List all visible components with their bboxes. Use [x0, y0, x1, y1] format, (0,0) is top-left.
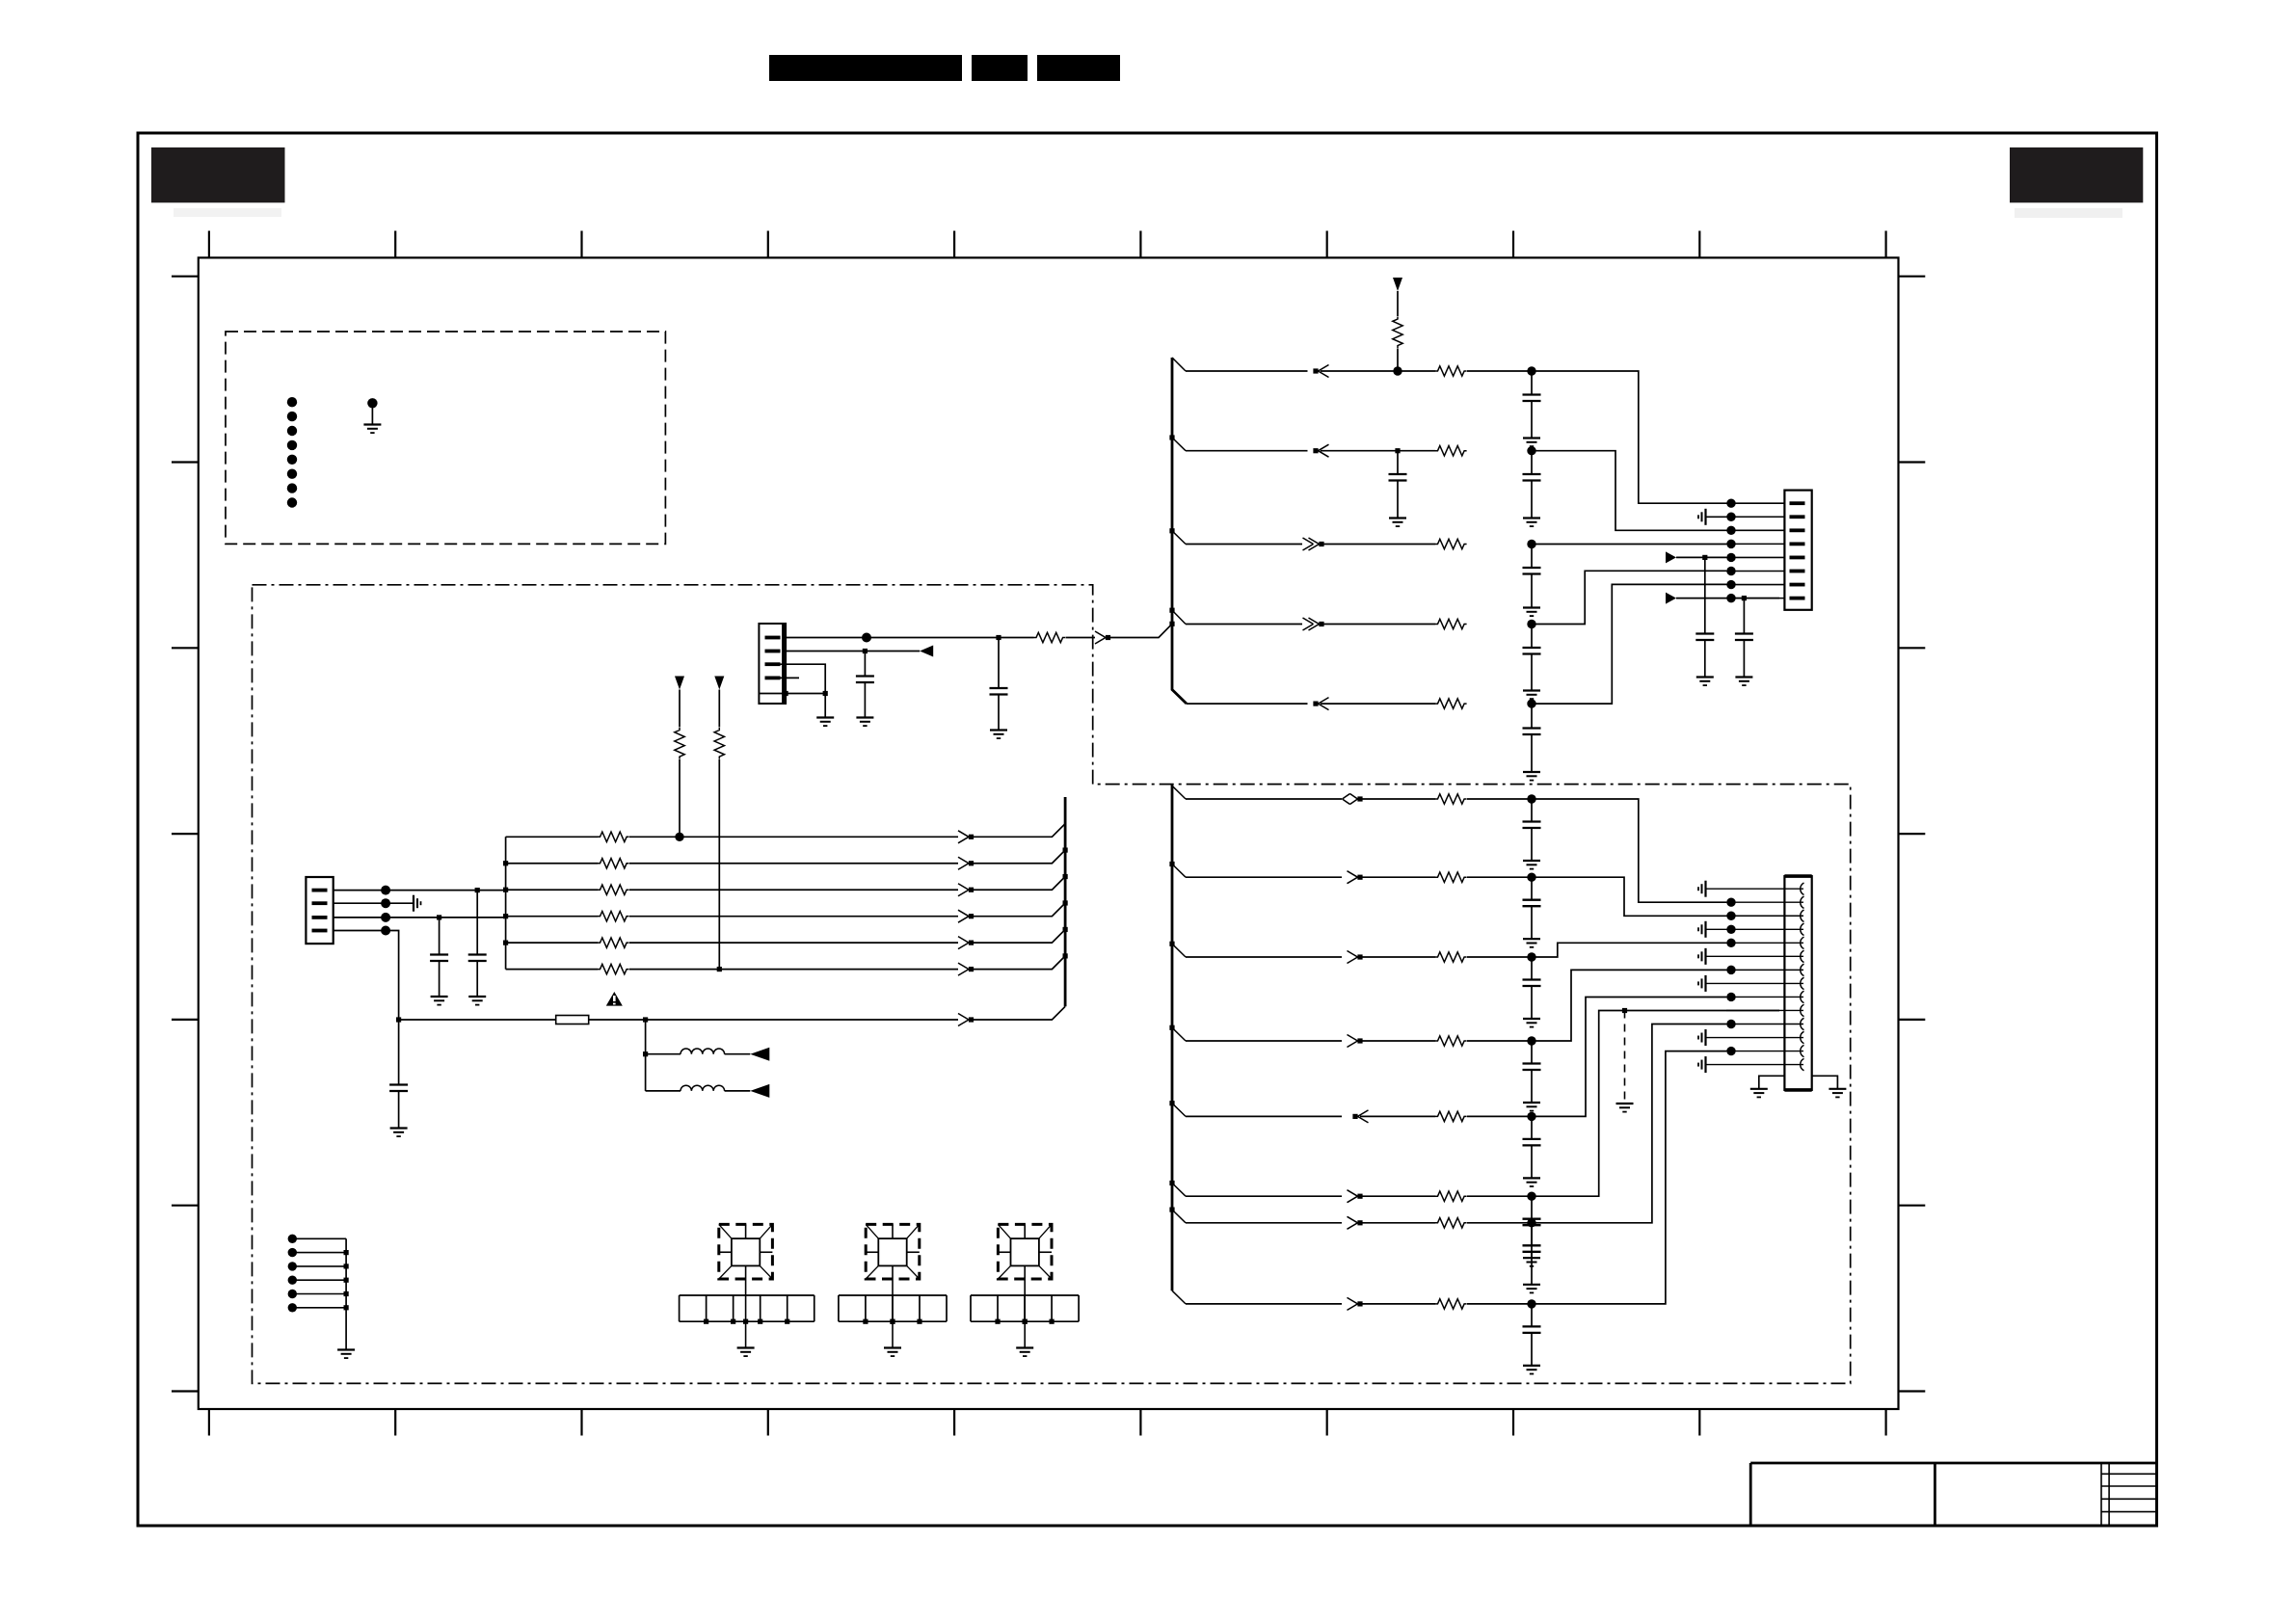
bus B2 node row3 — [1063, 874, 1068, 879]
C14 lead — [1531, 799, 1533, 822]
S1 ground node 4 — [785, 1319, 789, 1324]
wire row1 right segment — [1467, 371, 1726, 503]
row F2 wire left — [1186, 1222, 1342, 1224]
bank gather node row3 — [503, 888, 508, 892]
splice bar node 2 — [344, 1250, 349, 1255]
bank row4 wire — [506, 916, 598, 918]
node N24 junction — [643, 1017, 648, 1022]
wire C7 lead — [1704, 557, 1706, 633]
J4 contact 2 entry node — [1726, 898, 1735, 907]
splice bar node 5 — [344, 1291, 349, 1296]
row A wire after resistor — [1467, 798, 1532, 800]
resistor R5 — [1435, 619, 1467, 628]
ground of T3 — [1016, 1348, 1033, 1357]
node N22 junction — [717, 967, 722, 971]
row A wire left — [1186, 798, 1342, 800]
resistor R7 — [1034, 632, 1066, 642]
wire to J4 contact 11 — [1726, 1024, 1803, 1025]
node N7 junction — [1527, 699, 1535, 707]
T3 tap wire — [1024, 1265, 1026, 1321]
title block — [1750, 1463, 2156, 1526]
wire row3 left segment — [1186, 544, 1302, 545]
wire C11 lead — [476, 891, 478, 955]
bank row3 wire to bus — [972, 877, 1066, 891]
row C wire after resistor — [1467, 956, 1532, 958]
capacitor C1 — [1523, 395, 1541, 402]
wire C2 to ground — [1397, 481, 1399, 519]
row E wire mid — [1360, 1115, 1435, 1117]
node N19 junction — [437, 915, 441, 919]
row A wire mid — [1360, 798, 1435, 800]
cable bus B1 (vertical) — [1172, 358, 1187, 704]
bus B3 node row F — [1169, 1181, 1174, 1185]
bank row1 wire to arrow — [629, 836, 958, 838]
ground of splice group — [337, 1350, 355, 1359]
resistor R16 — [1435, 794, 1467, 804]
legend dashed box — [226, 332, 665, 544]
connector J4 (14-contact socket) — [1784, 876, 1811, 1090]
resistor R15 — [598, 964, 629, 973]
bus B3 fanout row E — [1172, 1104, 1186, 1117]
inductor L2 — [681, 1085, 725, 1091]
chassis tap J3 pin2 — [414, 895, 421, 912]
bus B1 fanout to row1 — [1172, 358, 1186, 371]
wire R1 to node N1 — [1397, 349, 1399, 372]
arrow bank row3 (right) — [958, 884, 974, 896]
wire row3 right segment — [1532, 544, 1726, 545]
capacitor C10 — [856, 677, 874, 683]
chassis tap J4 contact 8 — [1698, 975, 1706, 992]
wire row1 mid segment — [1321, 370, 1435, 372]
shielded transformer T3 — [998, 1224, 1052, 1279]
T2 tap wire — [892, 1265, 894, 1321]
wire J2 pin3 wire — [781, 664, 826, 693]
bank row3 wire — [506, 889, 598, 891]
wire row2 mid segment — [1321, 450, 1435, 452]
wire C5 lead — [1531, 625, 1533, 649]
row B wire right — [1532, 877, 1726, 916]
capacitor C13 — [389, 1085, 408, 1092]
wire C6 lead — [1531, 704, 1533, 728]
J1 pin 8 entry node — [1726, 594, 1735, 602]
row D wire mid — [1360, 1040, 1435, 1042]
bus B3 node row C — [1169, 942, 1174, 946]
row C wire mid — [1360, 956, 1435, 958]
bus B3 node row E — [1169, 1101, 1174, 1105]
splice node 1 — [288, 1235, 297, 1243]
wire to J1 pin 6 — [1726, 571, 1784, 572]
chassis tap J4 contact 1 — [1698, 881, 1706, 897]
wire to J4 contact 5 — [1726, 942, 1803, 944]
row G wire mid — [1360, 1303, 1435, 1305]
J1 pin 7 entry node — [1726, 580, 1735, 589]
capacitor C6 — [1523, 729, 1541, 735]
T1 ground lead — [745, 1321, 747, 1347]
wire L2 to arrow — [725, 1090, 751, 1092]
node N33 junction — [1527, 1299, 1535, 1308]
wire row3 mid segment — [1322, 544, 1435, 545]
wire C1 to ground — [1531, 401, 1533, 439]
wire fuse row wire to bus — [972, 1006, 1066, 1020]
node N27 junction — [1527, 873, 1535, 882]
ground of C12 — [431, 997, 448, 1005]
ground of shield drain — [1616, 1104, 1634, 1112]
wire C12 lead — [439, 918, 441, 955]
node N11 junction — [996, 635, 1001, 640]
arrow row F (right) — [1348, 1190, 1363, 1203]
connector J3 (4-pin header) — [306, 877, 333, 944]
inductor L1 — [681, 1049, 725, 1054]
resistor R12 — [598, 885, 629, 894]
resistor R13 — [598, 911, 629, 920]
fuse F1 — [556, 1016, 589, 1024]
shielded transformer T2 — [866, 1224, 920, 1279]
bank gather node row4 — [503, 914, 508, 918]
C21 to ground — [1531, 1333, 1533, 1366]
wire C13 to ground — [398, 1091, 400, 1129]
wire V1 to R1 — [1397, 291, 1399, 316]
splice wire 2 — [292, 1252, 346, 1254]
arrow row A (bidirectional) — [1343, 794, 1363, 805]
bank row2 wire to arrow — [629, 863, 958, 865]
C15 to ground — [1531, 906, 1533, 939]
resistor R20 — [1435, 1111, 1467, 1121]
ground of C15 — [1523, 939, 1540, 947]
resistor R23 — [1435, 1299, 1467, 1309]
ground of J4 shell right — [1829, 1089, 1846, 1098]
wire C5 to ground — [1531, 654, 1533, 691]
splice wire 4 — [292, 1279, 346, 1281]
node N15 junction — [381, 886, 390, 895]
connector J1 (8-pin header) — [1784, 491, 1811, 610]
wire J2 pin1 wire after resistor — [1066, 637, 1096, 639]
wire shell ground lead — [824, 694, 826, 718]
connector J2 (4-pin header) — [759, 624, 786, 704]
dashed ground lead — [1624, 1011, 1626, 1104]
capacitor C17 — [1523, 1064, 1541, 1071]
T3 ground lead — [1024, 1321, 1026, 1347]
T2 ground lead — [892, 1321, 894, 1347]
cable bus B3 (vertical) — [1171, 785, 1174, 1291]
C19 lead — [1531, 1196, 1533, 1219]
node N16 junction — [475, 888, 480, 892]
node N2 junction — [1527, 366, 1535, 375]
wire C10 to ground — [864, 682, 866, 718]
bus B1 node row3 — [1169, 528, 1174, 533]
wire J2 pin4 stub — [781, 677, 800, 678]
ground of C8 — [1735, 678, 1752, 686]
ground of C9 — [990, 731, 1007, 739]
arrow bank row5 (right) — [958, 937, 974, 949]
wire C9 lead — [998, 638, 1000, 689]
ground of C3 — [1523, 519, 1540, 527]
row F wire right — [1532, 1011, 1779, 1197]
bus B2 node row2 — [1063, 847, 1068, 852]
J1 pin 3 entry node — [1726, 526, 1735, 535]
C17 to ground — [1531, 1070, 1533, 1103]
wire row2 left segment — [1186, 450, 1308, 452]
node N18 junction — [381, 913, 390, 922]
node N26 junction — [1527, 794, 1535, 803]
wire C3 to ground — [1531, 481, 1533, 519]
row G wire after resistor — [1467, 1303, 1532, 1305]
ground of C5 — [1523, 691, 1540, 700]
wire to J4 contact 13 — [1726, 1051, 1803, 1052]
S2 ground node 2 — [890, 1319, 894, 1324]
arrow bank row2 (right) — [958, 857, 974, 869]
splice node 5 — [288, 1290, 297, 1298]
wire to J1 pin 2 — [1726, 516, 1784, 518]
node N9 junction — [1742, 596, 1747, 600]
resistor R21 — [1435, 1191, 1467, 1201]
row A wire right — [1532, 799, 1726, 902]
faded subtitle remnant left — [174, 208, 281, 217]
row F2 wire after resistor — [1467, 1222, 1532, 1224]
wire J2 pin1 wire — [784, 637, 999, 639]
T1 tap wire — [745, 1265, 747, 1321]
wire C7 to ground — [1704, 640, 1706, 678]
C16 to ground — [1531, 986, 1533, 1019]
bus B1 node row2 — [1169, 435, 1174, 439]
ground of C2 — [1389, 519, 1406, 527]
wire to J4 contact 8 — [1706, 982, 1804, 984]
J4 contact 11 entry node — [1726, 1020, 1735, 1028]
S2 ground node 3 — [917, 1319, 921, 1324]
C21 lead — [1531, 1304, 1533, 1327]
bus B1 node row4 — [1169, 608, 1174, 613]
wire C8 to ground — [1743, 640, 1745, 678]
wire row5 mid segment — [1321, 703, 1435, 705]
bank row5 wire to arrow — [629, 942, 958, 944]
wire C8 lead — [1743, 599, 1745, 634]
resistor R1 (vertical) — [1393, 317, 1402, 349]
title bar 2 (redacted) — [972, 55, 1028, 81]
wire to J4 contact 6 — [1706, 955, 1804, 957]
splice wire 6 — [292, 1307, 346, 1309]
splice node 6 — [288, 1303, 297, 1312]
J1 pin 4 entry node — [1726, 540, 1735, 548]
row G wire right — [1532, 1051, 1726, 1304]
wire C10 lead — [864, 652, 866, 677]
resistor R8 (vertical) — [675, 728, 684, 759]
S1 ground node 1 — [704, 1319, 708, 1324]
wire to J4 contact 7 — [1726, 969, 1803, 971]
chassis tap J4 contact 14 — [1698, 1056, 1706, 1073]
bank row6 wire to arrow — [629, 969, 958, 971]
row B wire after resistor — [1467, 876, 1532, 878]
bus B2 node row6 — [1063, 953, 1068, 958]
row D wire right — [1532, 970, 1726, 1041]
chassis tap J4 contact 12 — [1698, 1029, 1706, 1046]
arrow bank row6 (right) — [958, 963, 974, 975]
wire J2 shell to ground wire — [786, 693, 825, 695]
capacitor C5 — [1523, 648, 1541, 654]
resistor R10 — [598, 832, 629, 841]
node N17 junction — [381, 898, 390, 908]
bus B3 fanout row F2 — [1172, 1210, 1186, 1223]
S3 ground node 2 — [1022, 1319, 1027, 1324]
wire to J1 pin 8 — [1726, 598, 1784, 599]
sheet zone ticks — [172, 231, 1925, 1436]
wire J2 pin1 wire to resistor — [999, 637, 1034, 639]
arrow J2 pin1 (right) — [1095, 631, 1110, 644]
cable bus B2 (vertical) — [1064, 797, 1067, 1006]
signal arrow from L1 — [750, 1048, 769, 1061]
wire row5 right segment — [1532, 584, 1726, 704]
splice bar node 4 — [344, 1278, 349, 1283]
bus B2 node row4 — [1063, 900, 1068, 905]
capacitor C15 — [1523, 900, 1541, 907]
legend ground symbol with node — [363, 398, 381, 433]
black label box top-right — [2010, 147, 2143, 202]
ground of C13 — [390, 1129, 408, 1137]
row E wire after resistor — [1467, 1115, 1532, 1117]
bus B3 fanout row B — [1172, 865, 1186, 878]
bank row4 wire to arrow — [629, 916, 958, 918]
bank row6 wire to bus — [972, 956, 1066, 970]
power arrow V2 (triangle) — [675, 677, 684, 690]
resistor R11 — [598, 859, 629, 868]
wire R9 to row6 — [718, 759, 720, 970]
wire to J4 contact 12 — [1706, 1037, 1804, 1039]
wire row4 mid segment — [1322, 624, 1435, 625]
S3 ground node 3 — [1049, 1319, 1054, 1324]
bus B1 fanout to row4 — [1172, 610, 1186, 624]
ground of C7 — [1696, 678, 1714, 686]
T3 tap node — [1023, 1319, 1028, 1324]
bus B3 node row D — [1169, 1025, 1174, 1030]
J4 contact 7 entry node — [1726, 966, 1735, 974]
bank gather node row2 — [503, 861, 508, 865]
node N32 junction — [1527, 1218, 1535, 1227]
resistor R3 — [1435, 446, 1467, 456]
wire to J1 pin 1 — [1726, 502, 1784, 504]
node N4 junction — [1527, 446, 1535, 455]
wire C2 lead — [1397, 451, 1399, 474]
node N23 junction — [396, 1017, 401, 1022]
bus B3 node row B — [1169, 862, 1174, 866]
ground of C19 — [1523, 1258, 1540, 1266]
resistor R19 — [1435, 1036, 1467, 1046]
bank row2 wire to bus — [972, 850, 1066, 864]
ground of C17 — [1523, 1103, 1540, 1111]
wire to J1 pin 4 — [1726, 543, 1784, 545]
wire J3 pin1 wire — [334, 890, 506, 891]
chassis tap J4 contact 4 — [1698, 921, 1706, 938]
ground of T1 — [737, 1348, 755, 1357]
wire to J4 contact 1 — [1706, 888, 1804, 890]
wire fuse row wire 2 — [589, 1019, 958, 1021]
bank row3 wire to arrow — [629, 889, 958, 891]
splice bar node 6 — [344, 1305, 349, 1310]
bank row2 wire — [506, 863, 598, 865]
ground of C18 — [1523, 1178, 1540, 1186]
node N14 junction — [823, 691, 828, 696]
J2 shell line — [759, 693, 786, 695]
node N8 junction — [1702, 555, 1707, 560]
wire J3 pin3 wire — [334, 917, 506, 918]
bus B1 fanout to row3 — [1172, 531, 1186, 545]
bus B3 fanout row F — [1172, 1184, 1186, 1197]
J4 contact 3 entry node — [1726, 912, 1735, 920]
ground of J2 shell — [816, 718, 834, 727]
row C wire left — [1186, 956, 1342, 958]
wire L1 wire — [646, 1053, 681, 1055]
signal arrow from L2 — [750, 1084, 769, 1098]
wire R8 to row1 — [679, 759, 681, 837]
bank row4 wire to bus — [972, 903, 1066, 917]
wire to J4 contact 3 — [1726, 915, 1803, 917]
resistor R17 — [1435, 872, 1467, 882]
inner drawing frame — [199, 257, 1899, 1409]
wire to J4 contact 2 — [1726, 901, 1803, 903]
bank row1 wire to bus — [972, 824, 1066, 838]
node N25 junction — [643, 1051, 648, 1056]
black label box top-left — [151, 147, 285, 202]
node N5 junction — [1527, 540, 1535, 548]
wire row5 left segment — [1187, 703, 1308, 705]
node N3 junction — [1395, 448, 1400, 453]
T1 tap node — [743, 1319, 748, 1324]
wire to J4 contact 9 — [1726, 996, 1803, 998]
capacitor C11 — [468, 955, 487, 962]
row B wire mid — [1360, 876, 1435, 878]
bus B1 fanout to row2 — [1172, 438, 1186, 451]
row E wire right — [1532, 998, 1726, 1117]
splice bar node 3 — [344, 1264, 349, 1268]
node N21 junction — [675, 833, 683, 841]
arrow bank row4 (right) — [958, 910, 974, 922]
J1 pin 2 entry node — [1726, 513, 1735, 521]
node N30 junction — [1527, 1112, 1535, 1121]
J4 contact 4 entry node — [1726, 925, 1735, 934]
capacitor C8 — [1735, 634, 1753, 641]
J4 contact 13 entry node — [1726, 1047, 1735, 1055]
capacitor C16 — [1523, 980, 1541, 987]
wire C13 lead — [398, 1020, 400, 1085]
wire to J4 contact 14 — [1706, 1064, 1804, 1066]
wire L2 wire — [646, 1090, 681, 1092]
bank gather node row5 — [503, 941, 508, 945]
wire coil branch wire — [645, 1020, 647, 1091]
bank row1 wire — [506, 836, 598, 838]
bus B3 node row F2 — [1169, 1208, 1174, 1212]
splice wire 5 — [292, 1293, 346, 1295]
capacitor C4 — [1523, 568, 1541, 574]
capacitor C3 — [1523, 474, 1541, 481]
resistor R2 — [1435, 366, 1467, 376]
wire row4 right segment — [1532, 571, 1726, 624]
C18 lead — [1531, 1116, 1533, 1139]
S1 ground node 2 — [731, 1319, 735, 1324]
wire C11 to ground — [476, 961, 478, 997]
shielded transformer T1 — [719, 1224, 773, 1279]
node N12 junction — [863, 649, 868, 653]
wire J4 shell right leg — [1812, 1076, 1838, 1089]
arrow row E (left) — [1352, 1110, 1368, 1123]
wire J4 shell left leg — [1759, 1076, 1786, 1089]
splice node 2 — [288, 1248, 297, 1257]
C14 to ground — [1531, 828, 1533, 861]
capacitor C7 — [1695, 634, 1714, 641]
row D wire left — [1186, 1040, 1342, 1042]
capacitor C9 — [990, 688, 1008, 695]
wire to J4 contact 4 — [1706, 928, 1804, 930]
row D wire after resistor — [1467, 1040, 1532, 1042]
outer sheet frame — [138, 133, 2157, 1526]
wire row4 left segment — [1186, 624, 1302, 625]
ground of C6 — [1523, 772, 1540, 781]
